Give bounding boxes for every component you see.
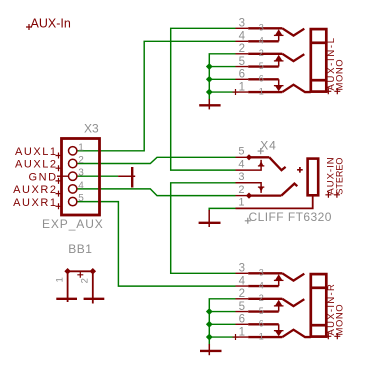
cross marker top jack pin1 [233, 89, 239, 95]
stereo jack X4 [236, 154, 319, 208]
svg-text:2: 2 [80, 278, 91, 283]
wire net GND group at bottom jack [209, 299, 235, 345]
X3 pin 3 circle [69, 172, 77, 180]
wire net AUXR2: X3 pin4 to X4 pin2 [77, 189, 236, 196]
X3 pin 5 circle [69, 197, 77, 205]
bottom jack label MONO [334, 304, 345, 340]
label AUXR2 [13, 184, 61, 197]
label GND [28, 171, 61, 184]
svg-text:1: 1 [78, 142, 84, 153]
svg-text:3: 3 [259, 268, 264, 278]
ground symbol GND at top jack [199, 99, 220, 109]
svg-text:1: 1 [259, 86, 264, 96]
svg-text:MONO: MONO [334, 304, 345, 336]
svg-text:5: 5 [239, 56, 245, 68]
junction dot top jack pin6 [206, 76, 213, 83]
bottom jack label AUX-IN-R [325, 283, 337, 339]
BB1 origin cross [77, 272, 83, 278]
svg-text:6: 6 [259, 74, 264, 84]
svg-text:GND: GND [28, 171, 57, 183]
label AUXL1 [15, 146, 62, 159]
junction dot bottom jack pin6 [206, 321, 213, 328]
svg-text:EXP_AUX: EXP_AUX [42, 217, 104, 231]
svg-text:3: 3 [238, 171, 244, 183]
wire net AUXL2: X3 pin2 to X4 pin5 [77, 157, 236, 163]
wire net: X4 pin3 to bottom jack pin3 [171, 183, 236, 273]
X3 pin 4 circle [69, 185, 77, 193]
svg-text:3: 3 [239, 263, 245, 275]
X4 label STEREO [334, 158, 345, 198]
svg-text:BB1: BB1 [68, 242, 92, 256]
svg-text:6: 6 [259, 319, 264, 329]
junction dot bottom jack pin1 [206, 334, 213, 341]
junction dot top jack pin5 [206, 63, 213, 70]
svg-text:2: 2 [78, 155, 84, 166]
solder bridge BB1 [56, 268, 104, 303]
svg-text:5: 5 [238, 146, 244, 158]
connector X3 body [62, 139, 100, 216]
top jack label AUX-IN-L [325, 36, 337, 94]
wire net AUXL1: X3 pin1 to top jack pin4 [77, 41, 236, 151]
svg-text:1: 1 [55, 277, 66, 282]
wire net GND at X4 pin1 [209, 208, 235, 211]
ground symbol GND at X3 [118, 167, 135, 188]
cross marker bottom jack pin1 [233, 334, 239, 340]
wire net AUXR1: X3 pin5 to bottom jack pin4 [77, 202, 236, 287]
X3 pin 1 circle [69, 147, 77, 155]
ground symbol GND at X4 [199, 210, 221, 227]
svg-text:AUXL1: AUXL1 [15, 146, 58, 158]
svg-text:2: 2 [259, 293, 264, 303]
svg-text:6: 6 [239, 314, 245, 326]
svg-text:2: 2 [239, 43, 245, 55]
svg-text:4: 4 [259, 36, 264, 46]
svg-text:X4: X4 [260, 138, 276, 152]
svg-text:1: 1 [239, 81, 245, 93]
svg-text:3: 3 [78, 168, 84, 179]
svg-text:MONO: MONO [334, 59, 345, 91]
svg-text:AUXL2: AUXL2 [15, 159, 58, 171]
wire net GND group at top jack [209, 54, 235, 100]
wire net GND from X3 pin3 [77, 175, 118, 177]
svg-text:2: 2 [259, 48, 264, 58]
svg-text:5: 5 [259, 306, 264, 316]
svg-text:2: 2 [238, 184, 244, 196]
svg-text:1: 1 [238, 197, 244, 209]
top jack label MONO [334, 59, 345, 95]
X4 name origin cross [258, 148, 264, 154]
svg-text:3: 3 [239, 18, 245, 30]
svg-text:4: 4 [239, 275, 246, 287]
svg-text:4: 4 [78, 180, 84, 191]
junction dot top jack pin1 [206, 89, 213, 96]
label AUXL2 [15, 159, 62, 172]
svg-text:3: 3 [259, 23, 264, 33]
svg-text:6: 6 [239, 69, 245, 81]
svg-text:AUXR2: AUXR2 [13, 184, 57, 196]
wire net: X4 pin4 to top jack pin3 [171, 28, 236, 170]
junction dot bottom jack pin5 [206, 308, 213, 315]
svg-text:STEREO: STEREO [335, 158, 345, 195]
svg-text:2: 2 [239, 288, 245, 300]
X3 pin3 stub line [57, 175, 69, 177]
svg-text:CLIFF FT6320: CLIFF FT6320 [249, 210, 332, 224]
label AUXR1 [13, 197, 61, 210]
X4 label AUX-IN [325, 156, 336, 197]
mono jack AUX-IN-R (bottom) [236, 273, 327, 337]
X3 pin 2 circle [69, 159, 77, 167]
svg-text:AUXR1: AUXR1 [13, 197, 57, 209]
svg-text:1: 1 [259, 331, 264, 341]
svg-text:4: 4 [239, 31, 246, 43]
svg-text:4: 4 [259, 280, 264, 290]
mono jack AUX-IN-L (top) [236, 28, 327, 92]
net label AUX-In [26, 16, 71, 30]
svg-text:1: 1 [239, 326, 245, 338]
svg-text:X3: X3 [84, 121, 99, 135]
svg-text:AUX-In: AUX-In [31, 16, 71, 30]
ground symbol GND at bottom jack [200, 344, 222, 355]
X4 value CLIFF FT6320 [245, 210, 332, 224]
svg-text:4: 4 [238, 158, 244, 170]
svg-text:5: 5 [259, 61, 264, 71]
svg-text:5: 5 [78, 193, 84, 204]
svg-text:5: 5 [239, 301, 245, 313]
